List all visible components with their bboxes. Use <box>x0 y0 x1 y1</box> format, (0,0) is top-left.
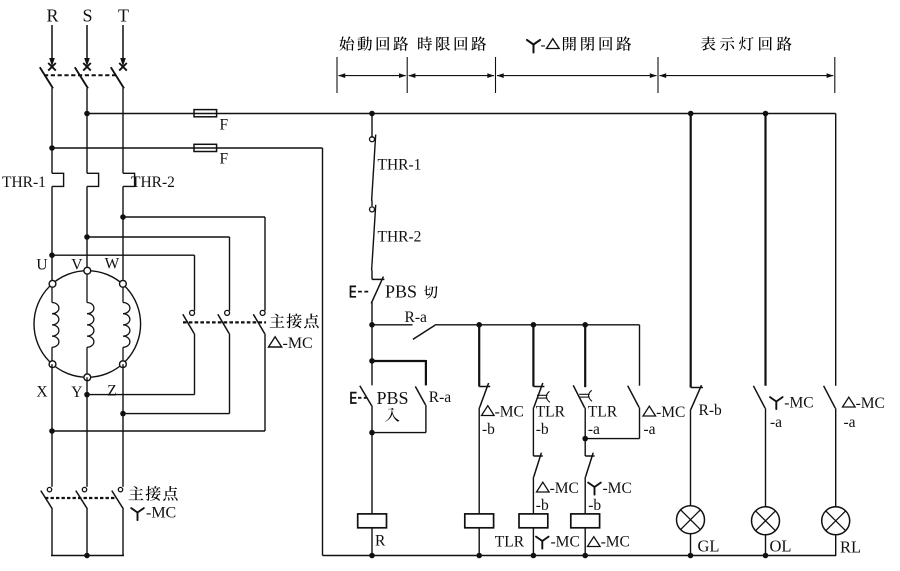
node Ra rail left <box>369 322 375 328</box>
wire R below heater <box>51 186 53 283</box>
label star-MC coil <box>536 534 580 551</box>
thermal relay THR-1 heater on R <box>52 173 64 186</box>
node U to delta wire <box>49 252 55 258</box>
label GL <box>698 537 720 556</box>
main contact star-MC pole 3 <box>112 487 124 509</box>
label Y <box>71 384 82 401</box>
wire OL to rail <box>765 535 767 556</box>
label F2 <box>220 151 229 168</box>
label U <box>36 257 47 274</box>
contact R-a (NO, horizontal) <box>372 325 435 340</box>
operator E PBS-on <box>351 393 367 403</box>
label shusetten (star) <box>129 486 178 501</box>
label V <box>71 257 83 274</box>
wire TLR coil to rail <box>478 528 480 556</box>
svg-text:-MC: -MC <box>856 395 885 412</box>
node S (phase S incoming with arrow) <box>82 6 92 67</box>
wire R star drop <box>51 509 53 556</box>
label jigen kairo <box>418 36 486 50</box>
contact R-a (seal NO) <box>372 386 426 432</box>
svg-text:THR-1: THR-1 <box>2 174 46 191</box>
svg-text:-MC: -MC <box>656 404 685 421</box>
wire branch1 stub (bold) <box>478 325 480 387</box>
motor M stator circle <box>34 271 141 378</box>
main contact star-MC pole 2 <box>76 487 88 509</box>
svg-text:TLR: TLR <box>536 404 566 421</box>
wire S motor to star contact <box>86 377 88 487</box>
label PBS-on <box>377 388 409 422</box>
wire fuse2 horizontal <box>52 147 323 149</box>
node GL rail <box>688 553 694 559</box>
wire GL stub (bold) <box>690 114 692 388</box>
relay coil R <box>358 514 387 528</box>
label R coil <box>375 533 386 550</box>
main contact delta-MC pole 2 <box>218 310 230 333</box>
thermal contact THR-1 <box>370 135 376 201</box>
contactor coil star-MC <box>519 514 548 528</box>
wire T star drop <box>122 509 124 556</box>
svg-text:-MC: -MC <box>603 480 632 497</box>
wire branch2 to coil <box>532 477 534 514</box>
wire S below heater <box>86 186 88 270</box>
node S to delta wire <box>84 234 90 240</box>
contact TLR-a (delayed NO) <box>573 385 592 407</box>
node GL tap <box>688 111 694 117</box>
fuse F2 <box>194 144 217 151</box>
section boundary ticks <box>337 57 835 93</box>
thermal relay THR heater on S <box>87 173 99 186</box>
wire deltaMC coil to rail <box>584 528 586 556</box>
wire branch1 to TLR coil <box>478 408 480 514</box>
svg-text:THR-2: THR-2 <box>378 229 422 246</box>
svg-text:PBS: PBS <box>377 388 409 408</box>
svg-text:-b: -b <box>536 421 549 438</box>
svg-text:RL: RL <box>840 538 861 557</box>
thermal contact THR-2 <box>370 205 376 271</box>
svg-text:THR-1: THR-1 <box>378 157 422 174</box>
node R coil rail <box>369 553 375 559</box>
wire THR-2 to PBS-off <box>371 270 373 279</box>
svg-text:W: W <box>105 256 120 273</box>
node X tap <box>49 428 55 434</box>
pushbutton PBS-on (NO) <box>360 361 372 406</box>
operator E PBS-off <box>351 286 370 296</box>
node branch4 rejoin <box>582 436 588 442</box>
main contact delta-MC linkage (dashed bold) <box>183 321 266 323</box>
main contact star-MC pole 1 <box>41 487 53 509</box>
contact TLR-b (delayed NC) <box>533 383 549 408</box>
svg-text:TLR: TLR <box>588 404 618 421</box>
svg-text:F: F <box>220 151 229 168</box>
label THR-2 <box>131 174 175 191</box>
wire branch2 stub (bold) <box>532 325 534 387</box>
wire phase S vertical <box>86 88 88 173</box>
wire control top rail <box>87 113 836 115</box>
wire RL stub <box>835 114 837 386</box>
svg-text:PBS: PBS <box>385 282 417 302</box>
node Y star tap <box>84 392 90 398</box>
node seal branch <box>369 358 375 364</box>
label star-MC-b <box>588 480 632 514</box>
node OL rail <box>763 553 769 559</box>
knife switch linkage (dashed bold) <box>44 74 116 76</box>
svg-text:R: R <box>46 6 58 26</box>
section span arrows <box>338 73 833 78</box>
label Z <box>107 383 116 400</box>
node deltaMC rail <box>582 553 588 559</box>
wire control bottom rail <box>323 555 837 557</box>
svg-text:R: R <box>375 533 386 550</box>
wire PBS-off to Ra node <box>371 303 373 325</box>
knife switch pole S (X contact and blade) <box>75 63 91 88</box>
node Ra rail b3 <box>582 322 588 328</box>
label delta-MC-b2 <box>536 480 579 514</box>
svg-text:S: S <box>82 6 92 26</box>
lamp OL <box>752 507 780 535</box>
svg-text:-MC: -MC <box>550 480 579 497</box>
svg-text:Y: Y <box>71 384 82 401</box>
wire seal branch top (bold) <box>372 360 426 385</box>
wire S star drop <box>86 509 88 556</box>
wire fuse2 drop to bottom rail <box>322 148 324 556</box>
node seal rejoin <box>369 430 375 436</box>
wire delta pole1 to Y node <box>87 334 195 395</box>
contact star-MC-b (NC) <box>585 453 594 477</box>
svg-text:THR-2: THR-2 <box>131 174 175 191</box>
wire branch4 stub <box>639 325 641 386</box>
label R-b <box>699 402 723 419</box>
contact delta-MC-a2 (NO) <box>824 386 836 408</box>
label PBS-off <box>385 282 438 302</box>
contact star-MC-a (NO) <box>753 386 765 408</box>
label star-MC-a <box>770 395 814 432</box>
svg-text:OL: OL <box>770 537 792 556</box>
node OL tap <box>763 111 769 117</box>
wire U to delta contact <box>52 255 195 311</box>
svg-text:-MC: -MC <box>601 534 630 551</box>
lamp RL <box>822 507 850 535</box>
label shidou kairo <box>339 36 408 50</box>
node star point <box>84 553 90 559</box>
label delta-MC-a <box>643 404 685 438</box>
svg-text:-b: -b <box>536 497 549 514</box>
node fuse tap on R <box>49 145 55 151</box>
label Y-delta kaihei kairo <box>527 36 631 53</box>
label star-MC (main) <box>131 505 176 522</box>
wire branch2 mid <box>532 408 534 457</box>
label RL <box>840 538 861 557</box>
wire branch4 down-left <box>585 407 639 438</box>
svg-text:-b: -b <box>588 497 601 514</box>
node T to delta wire <box>120 214 126 220</box>
wire starMC coil to rail <box>532 528 534 556</box>
wire R coil to rail <box>371 528 373 556</box>
svg-text:-MC: -MC <box>495 404 524 421</box>
node fuse tap on S <box>84 111 90 117</box>
timer coil TLR <box>465 514 494 528</box>
pushbutton PBS-off (NC) <box>371 277 384 304</box>
svg-text:-a: -a <box>844 414 856 431</box>
wire OL stub (bold) <box>764 114 766 386</box>
label THR-2 contact <box>378 229 422 246</box>
node Ra rail b1 <box>476 322 482 328</box>
contactor coil delta-MC <box>571 514 600 528</box>
main contact delta-MC pole 3 <box>253 310 265 333</box>
wire between THR-1 THR-2 <box>371 201 373 207</box>
wire phase T vertical <box>122 88 124 173</box>
contact delta-MC-a (NO) <box>628 386 639 408</box>
wire OL to lamp <box>765 408 767 507</box>
label delta-MC-a2 <box>843 395 885 431</box>
label delta-MC-b <box>482 404 524 438</box>
label delta-MC (main) <box>269 335 313 352</box>
wire T below heater <box>122 186 124 283</box>
svg-text:U: U <box>36 257 47 274</box>
wire PBSon to R coil <box>371 406 373 514</box>
svg-text:-b: -b <box>482 421 495 438</box>
node T (phase T incoming with arrow) <box>118 6 129 67</box>
label X <box>36 384 47 401</box>
svg-text:F: F <box>220 117 229 134</box>
svg-text:GL: GL <box>698 537 720 556</box>
wire control branch top <box>371 114 373 138</box>
label OL <box>770 537 792 556</box>
label THR-1 <box>2 174 46 191</box>
contact delta-MC-b2 (NC) <box>533 453 542 477</box>
wire branch3 mid <box>584 408 586 456</box>
svg-text:R-a: R-a <box>405 309 428 326</box>
main contact star-MC linkage (dashed bold) <box>45 497 116 499</box>
contact R-b (NC) <box>690 385 703 410</box>
fuse F1 <box>194 110 217 117</box>
wire GL to lamp <box>690 411 692 506</box>
svg-text:R-a: R-a <box>429 389 452 406</box>
thermal relay THR-2 heater on T <box>123 173 135 186</box>
main contact delta-MC pole 1 <box>183 310 195 333</box>
svg-text:-MC: -MC <box>784 395 813 412</box>
motor winding lead wires <box>52 271 123 378</box>
label R-a seal <box>429 389 452 406</box>
label shusetten (delta) <box>270 314 319 329</box>
label THR-1 contact <box>378 157 422 174</box>
wire delta pole3 to X node <box>52 334 265 431</box>
wire branch3 to coil <box>584 477 586 514</box>
node starMC rail <box>531 553 537 559</box>
wire T to delta contact <box>123 217 265 311</box>
motor windings (3 coils) <box>52 303 130 348</box>
svg-text:-MC: -MC <box>551 534 580 551</box>
svg-text:X: X <box>36 384 47 401</box>
svg-text:-MC: -MC <box>283 335 313 352</box>
wire Ra rail <box>435 324 640 326</box>
label TLR coil <box>495 534 525 551</box>
svg-text:-a: -a <box>644 421 656 438</box>
knife switch pole T (X contact and blade) <box>111 63 127 88</box>
svg-text:TLR: TLR <box>495 534 525 551</box>
lamp GL <box>677 506 705 534</box>
svg-text:-MC: -MC <box>146 505 176 522</box>
label R-a top <box>405 309 428 326</box>
wire RL to lamp <box>835 408 837 507</box>
svg-text:-a: -a <box>588 421 600 438</box>
wire S to delta contact <box>87 237 230 311</box>
node Ra rail b2 <box>531 322 537 328</box>
node control tap <box>369 111 375 117</box>
label hyoujitou kairo <box>701 36 792 50</box>
motor terminals U V W X Y Z (circles) <box>49 267 126 380</box>
svg-text:V: V <box>71 257 83 274</box>
wire branch3 stub (bold) <box>584 325 586 387</box>
wire RL to rail <box>835 535 837 556</box>
knife switch pole R (X contact and blade) <box>40 63 56 88</box>
label F1 <box>220 117 229 134</box>
node TLR rail <box>476 553 482 559</box>
wire R motor to star contact <box>51 364 53 487</box>
svg-text:-a: -a <box>770 414 782 431</box>
node Z tap <box>120 411 126 417</box>
svg-text:Z: Z <box>107 383 116 400</box>
wire GL to rail <box>690 534 692 556</box>
contact delta-MC-b (NC) <box>479 383 490 408</box>
svg-text:-: - <box>541 38 546 54</box>
wire star point short <box>51 555 124 557</box>
wire T motor to star contact <box>122 364 124 487</box>
node R (phase R incoming with arrow) <box>46 6 58 67</box>
label delta-MC coil <box>588 534 630 551</box>
wire phase R vertical <box>51 88 53 173</box>
svg-text:T: T <box>118 6 129 26</box>
label TLR-b <box>536 404 566 438</box>
svg-text:R-b: R-b <box>699 402 723 419</box>
label W <box>105 256 120 273</box>
wire main to PBSon <box>371 325 373 361</box>
wire delta pole2 to Z node <box>123 334 230 414</box>
label TLR-a <box>588 404 618 438</box>
